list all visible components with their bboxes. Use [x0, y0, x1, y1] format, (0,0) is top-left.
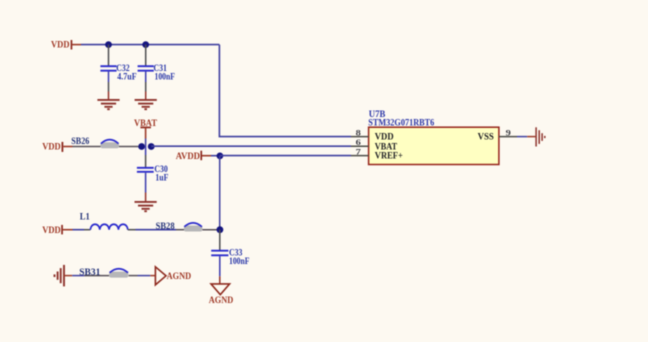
port AGND (right arrow) [155, 267, 191, 285]
pin 6 VBAT [351, 137, 398, 152]
wire SB28 to junction [202, 229, 219, 231]
svg-text:1uF: 1uF [155, 172, 168, 182]
wire AVDD to junction [211, 155, 220, 157]
wire C31 lower lead [145, 72, 147, 100]
svg-text:SB28: SB28 [156, 221, 175, 231]
svg-text:L1: L1 [80, 212, 90, 222]
inductor L1 [80, 212, 128, 230]
svg-text:6: 6 [356, 137, 362, 147]
wire C30 lower lead [145, 173, 147, 202]
svg-text:VREF+: VREF+ [375, 152, 403, 162]
power port VDD (top rail) [51, 40, 81, 50]
svg-text:SB31: SB31 [79, 267, 101, 277]
svg-text:VBAT: VBAT [134, 118, 157, 128]
op-amp U7B (IC body STM32G071RBT6) [368, 109, 499, 165]
svg-text:VDD: VDD [42, 142, 61, 152]
power port VDD (VBAT row) [42, 142, 72, 152]
wire AVDD rail to pin 7 [220, 155, 351, 157]
junction VBAT right [148, 143, 155, 150]
power port AVDD [176, 151, 211, 161]
svg-text:8: 8 [356, 128, 362, 138]
solder bridge SB26 [71, 136, 119, 148]
ground symbol (rotated earth, left) at SB31 [55, 265, 65, 287]
svg-text:9: 9 [506, 127, 512, 137]
svg-text:AGND: AGND [209, 295, 234, 305]
ground symbol AGND (open triangle) [209, 284, 234, 305]
pin 9 VSS [478, 127, 536, 142]
svg-text:VSS: VSS [478, 132, 494, 142]
svg-text:100nF: 100nF [229, 256, 250, 266]
wire C32 lower lead [108, 72, 110, 100]
wire VDD to L1 [73, 229, 91, 231]
wire C32 upper lead [108, 45, 110, 66]
junction SB28/C33 [217, 226, 224, 233]
power port VBAT [134, 118, 157, 139]
wire L1 to SB28 [128, 229, 184, 231]
capacitor C33 [211, 248, 250, 266]
ground symbol (earth) under C31 [135, 100, 157, 109]
svg-text:VDD: VDD [375, 132, 394, 142]
svg-text:VDD: VDD [42, 225, 61, 235]
svg-text:4.7uF: 4.7uF [117, 71, 137, 81]
svg-text:AVDD: AVDD [176, 151, 201, 161]
capacitor C32 [100, 63, 137, 81]
wire AVDD down to SB28 junction [219, 156, 221, 230]
junction VBAT left [138, 143, 145, 150]
wire C33 upper lead [219, 230, 221, 250]
ground symbol (rotated earth, right) at VSS [536, 127, 545, 146]
wire C31 upper lead [145, 45, 147, 66]
wire SB31 to AGND port [129, 275, 156, 277]
wire VDD top rail horizontal [81, 44, 219, 46]
svg-text:STM32G071RBT6: STM32G071RBT6 [368, 118, 434, 128]
junction at C32 [105, 41, 112, 48]
capacitor C31 [138, 63, 176, 81]
svg-text:VDD: VDD [51, 40, 70, 50]
wire C33 lower lead [219, 256, 221, 284]
ground symbol (earth) under C32 [97, 100, 119, 109]
power port VDD (L1 row) [42, 225, 72, 235]
wire VDD to SB26 [73, 146, 101, 148]
wire SB26 to junction [119, 146, 138, 148]
svg-text:AGND: AGND [167, 271, 192, 281]
wire junction to C30 [145, 147, 147, 168]
wire VBAT rail to pin 6 [151, 145, 351, 147]
wire ground to SB31 [64, 275, 109, 277]
svg-text:SB26: SB26 [71, 136, 89, 146]
solder bridge SB31 [79, 267, 128, 277]
svg-text:7: 7 [356, 147, 362, 157]
solder bridge SB28 [156, 221, 203, 232]
wire VDD vertical drop to pin 8 [219, 45, 351, 137]
capacitor C30 [137, 164, 169, 182]
junction AVDD [217, 153, 224, 160]
pin 7 VREF+ [351, 147, 403, 162]
pin 8 VDD [351, 128, 394, 143]
junction at C31 [142, 41, 149, 48]
ground symbol (earth) under C30 [135, 202, 157, 211]
wire VBAT drop [145, 139, 147, 147]
svg-text:100nF: 100nF [155, 71, 176, 81]
